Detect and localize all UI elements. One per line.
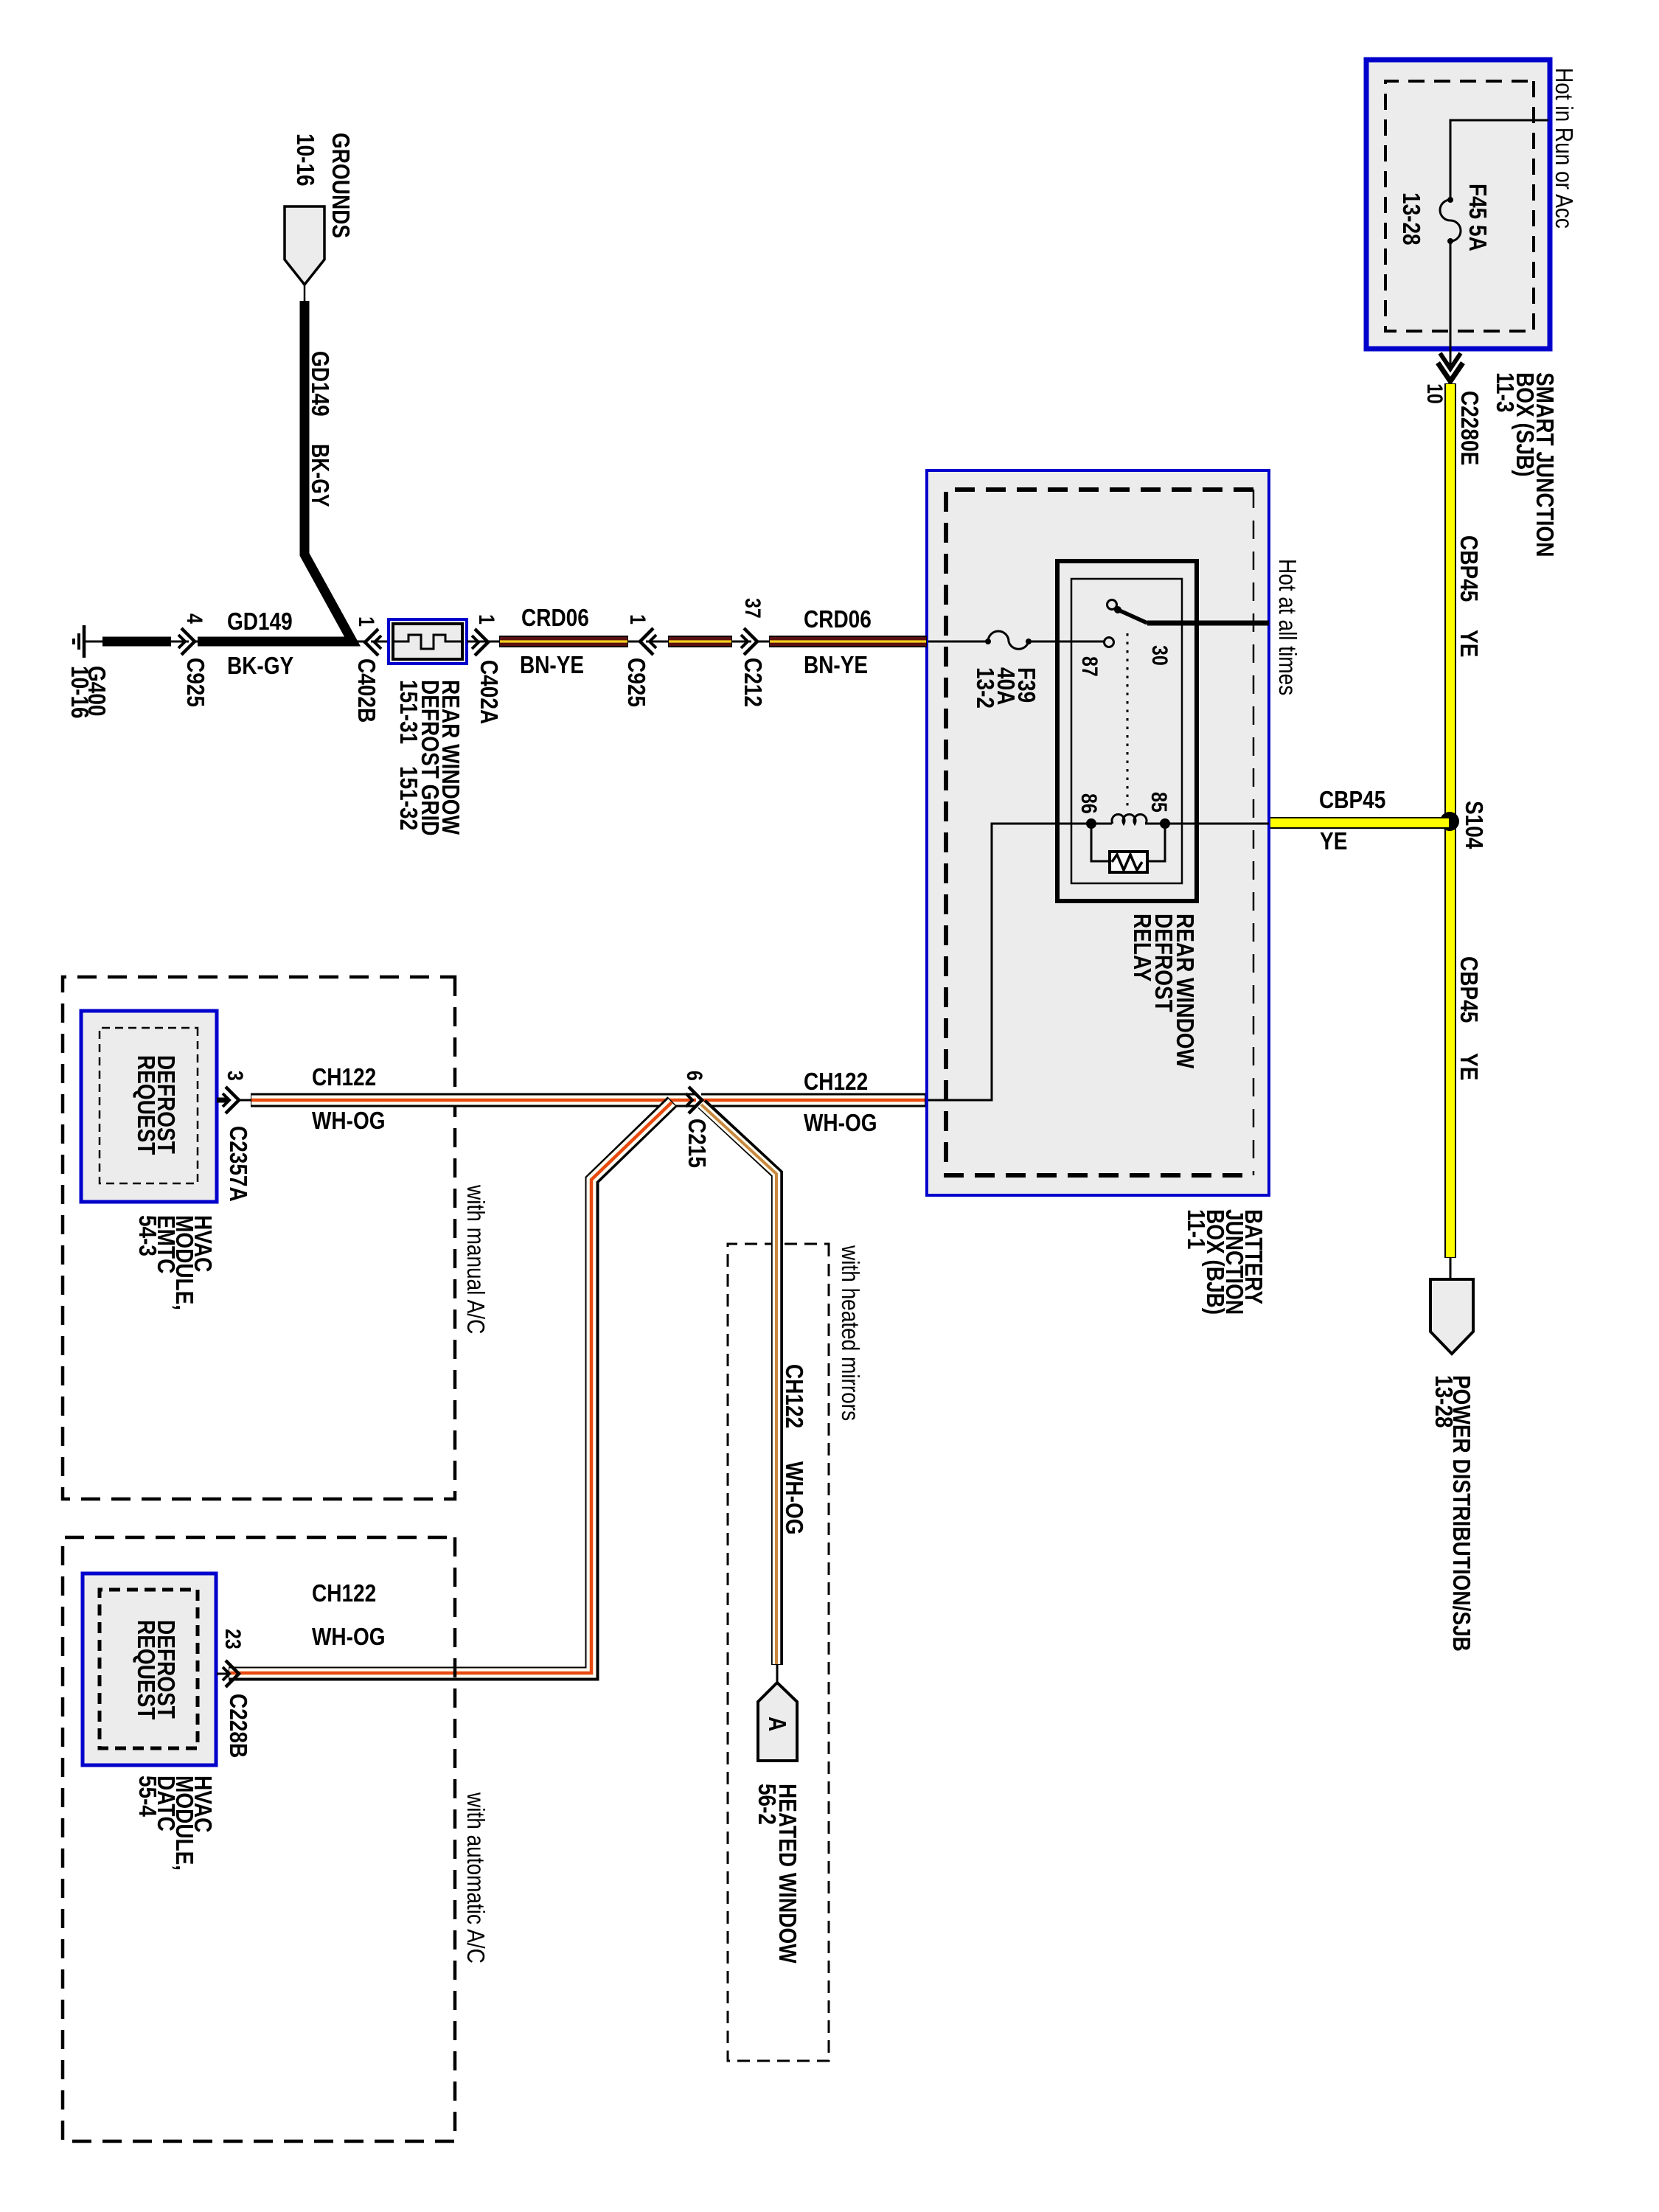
BJB inner dashed border (946, 490, 1253, 1175)
svg-text:REQUEST: REQUEST (133, 1620, 160, 1719)
svg-text:GD149: GD149 (307, 351, 334, 417)
wire CBP45 YE segment 1 (1444, 383, 1456, 1258)
wire fuse to SJB edge (1450, 241, 1452, 367)
wire pentagon to GD149 (304, 285, 306, 302)
fuse F39 40A (985, 631, 1032, 649)
HVAC module EMTC box (81, 1011, 217, 1202)
label F39 40A 13-2 (972, 667, 1040, 709)
connector C212 chevron (pin 37) (741, 628, 757, 655)
fuse F45 5A (1440, 197, 1461, 244)
svg-text:GROUNDS: GROUNDS (327, 133, 355, 238)
svg-text:C925: C925 (623, 658, 650, 707)
wire CBP45 YE branch to BJB (1269, 817, 1450, 829)
svg-text:CH122: CH122 (312, 1063, 376, 1091)
svg-text:13-28: 13-28 (1430, 1375, 1458, 1428)
splice S104 (1440, 812, 1459, 831)
DATC defrost request dashed box (100, 1590, 198, 1748)
svg-text:with manual A/C: with manual A/C (462, 1184, 490, 1334)
wire CRD06 BN-YE segment 3 (769, 636, 927, 647)
svg-text:WH-OG: WH-OG (781, 1461, 808, 1535)
svg-text:REQUEST: REQUEST (133, 1055, 160, 1155)
svg-text:C2280E: C2280E (1456, 391, 1484, 465)
svg-text:CRD06: CRD06 (521, 604, 589, 631)
svg-text:23: 23 (220, 1629, 245, 1649)
svg-text:56-2: 56-2 (754, 1784, 781, 1825)
svg-text:6: 6 (682, 1071, 706, 1081)
svg-text:54-3: 54-3 (134, 1215, 161, 1256)
svg-text:BN-YE: BN-YE (520, 651, 584, 678)
connector C925 chevron (pin 4) (178, 628, 195, 655)
svg-text:1: 1 (474, 614, 498, 625)
connector C925 chevron (pin 1) (640, 628, 656, 655)
connector C228B chevron (pin 23) (223, 1660, 239, 1687)
svg-text:YE: YE (1455, 1053, 1483, 1080)
svg-text:WH-OG: WH-OG (312, 1107, 386, 1134)
svg-text:with automatic A/C: with automatic A/C (462, 1792, 490, 1964)
relay inner box (1071, 579, 1182, 883)
svg-text:1: 1 (354, 616, 378, 627)
svg-text:11-1: 11-1 (1183, 1209, 1210, 1250)
rear window defrost grid box (389, 619, 467, 664)
GROUNDS pentagon connector (285, 206, 324, 285)
svg-text:CH122: CH122 (781, 1364, 808, 1428)
svg-text:C402B: C402B (353, 658, 380, 723)
svg-text:BK-GY: BK-GY (227, 652, 293, 679)
svg-text:30: 30 (1147, 645, 1172, 666)
svg-text:C215: C215 (684, 1119, 711, 1168)
svg-text:CBP45: CBP45 (1455, 956, 1483, 1023)
svg-text:CRD06: CRD06 (804, 605, 872, 633)
wire CRD06 BN-YE segment 1 (499, 636, 628, 647)
svg-text:YE: YE (1455, 630, 1483, 657)
EMTC pin stub (217, 1098, 229, 1103)
relay switch arm (1107, 600, 1148, 624)
wire CRD06 BN-YE mid segment (668, 636, 732, 647)
relay suppression resistor (1091, 824, 1165, 872)
wire CH122 WH-OG heated window branch (701, 1104, 777, 1665)
svg-text:S104: S104 (1461, 801, 1488, 849)
svg-text:1: 1 (625, 614, 650, 625)
smart junction box SJB (1366, 60, 1550, 349)
wire at C212 gap (732, 641, 769, 643)
svg-text:WH-OG: WH-OG (312, 1623, 386, 1650)
wire GD149 BK-GY thick lower (102, 637, 171, 647)
relay outer box (1057, 561, 1197, 901)
svg-text:3: 3 (223, 1071, 247, 1081)
svg-text:86: 86 (1077, 793, 1101, 814)
svg-text:Hot in Run or Acc: Hot in Run or Acc (1551, 68, 1578, 229)
svg-text:CBP45: CBP45 (1319, 786, 1385, 813)
svg-text:151-31: 151-31 (395, 680, 422, 744)
svg-text:GD149: GD149 (227, 608, 293, 635)
svg-text:BN-YE: BN-YE (804, 651, 868, 678)
wire fuse F39 to pin 87 (1029, 641, 1104, 643)
svg-text:10: 10 (1422, 383, 1447, 404)
svg-text:CH122: CH122 (312, 1579, 376, 1607)
relay coil (1086, 814, 1170, 829)
svg-text:11-3: 11-3 (1492, 372, 1519, 413)
battery junction box BJB (927, 470, 1269, 1195)
svg-text:F45 5A: F45 5A (1464, 184, 1492, 251)
DATC pin stub (217, 1673, 229, 1675)
A pentagon connector (758, 1683, 797, 1761)
svg-text:C925: C925 (182, 658, 209, 707)
SJB inner dashed border (1385, 81, 1534, 331)
wire GD149 BK-GY thick upper (198, 301, 352, 641)
svg-text:CH122: CH122 (804, 1068, 868, 1095)
svg-text:CBP45: CBP45 (1455, 535, 1483, 602)
label HVAC MODULE, EMTC 54-3 (134, 1215, 217, 1310)
wire to ground G400 (86, 641, 105, 643)
wire coil pin 86 to CH122 (928, 824, 1091, 1100)
wire to POWER DISTRIBUTION pentagon (1450, 1258, 1452, 1281)
svg-text:Hot at all times: Hot at all times (1274, 559, 1301, 695)
EMTC defrost request dashed box (100, 1028, 198, 1183)
arrow out of SJB (1438, 353, 1463, 381)
svg-text:10-16: 10-16 (66, 666, 94, 719)
hot feed wire into relay pin 30 (1147, 621, 1269, 626)
wire CH122 WH-OG main (251, 1093, 925, 1107)
wire from SJB top to fuse F45 (1450, 120, 1548, 198)
svg-text:55-4: 55-4 (134, 1775, 161, 1818)
label REAR WINDOW DEFROST RELAY (1129, 914, 1199, 1069)
relay actuator dotted line (1127, 633, 1129, 809)
svg-text:RELAY: RELAY (1129, 914, 1156, 981)
wire BJB edge to fuse F39 (928, 641, 988, 643)
wire to A pentagon (776, 1665, 779, 1684)
svg-text:87: 87 (1077, 656, 1102, 677)
svg-text:37: 37 (740, 598, 765, 619)
wire yellow branch into coil pin 85 (1165, 823, 1269, 825)
label BATTERY JUNCTION BOX (BJB) 11-1 (1183, 1209, 1267, 1315)
svg-text:BK-GY: BK-GY (307, 444, 334, 507)
label HEATED WINDOW 56-2 (754, 1784, 801, 1964)
wire CH122 WH-OG to DATC (229, 1102, 672, 1674)
svg-text:10-16: 10-16 (292, 133, 319, 187)
svg-text:13-28: 13-28 (1398, 192, 1425, 246)
svg-text:13-2: 13-2 (972, 667, 999, 709)
svg-text:YE: YE (1320, 827, 1347, 855)
svg-text:C402A: C402A (476, 660, 503, 724)
label HVAC MODULE, DATC 55-4 (134, 1775, 217, 1871)
svg-text:C2357A: C2357A (225, 1126, 252, 1202)
wire chevron to CH122 (239, 1099, 251, 1102)
svg-text:WH-OG: WH-OG (804, 1109, 877, 1136)
ground symbol G400 (74, 625, 84, 658)
svg-text:C228B: C228B (225, 1694, 252, 1758)
svg-text:with heated mirrors: with heated mirrors (837, 1245, 864, 1421)
wire at C925 (pin1) gap (628, 641, 668, 643)
relay pin 87 contact (1105, 638, 1114, 647)
svg-text:4: 4 (182, 613, 206, 624)
svg-text:151-32: 151-32 (395, 766, 422, 830)
svg-text:A: A (764, 1717, 791, 1731)
connector C402B chevron (pin 1) (365, 629, 381, 655)
HVAC module DATC box (83, 1573, 216, 1765)
junction gap at C215 (696, 1093, 701, 1107)
with heated mirrors dashed box (728, 1244, 829, 2061)
with automatic A/C dashed box (63, 1537, 455, 2141)
svg-text:85: 85 (1147, 792, 1171, 813)
wire at connector C925 gap (168, 641, 201, 643)
label DEFROST REQUEST (DATC) (133, 1620, 180, 1719)
grid element symbol (393, 635, 462, 649)
label DEFROST REQUEST (EMTC) (133, 1055, 180, 1155)
POWER DISTRIBUTION pentagon connector (1430, 1279, 1473, 1354)
wire C402B to grid (195, 641, 389, 643)
label SMART JUNCTION BOX (SJB) 11-3 (1492, 372, 1559, 557)
svg-text:C212: C212 (740, 658, 767, 707)
wire grid to C402A (467, 641, 499, 643)
label REAR WINDOW DEFROST GRID 151-31 151-32 (395, 680, 465, 836)
connector C2357A chevron (pin 3) (223, 1087, 239, 1113)
connector C215 chevron (pin 6) (686, 1087, 702, 1113)
connector C402A chevron (pin 1) (472, 629, 488, 655)
with manual A/C dashed box (63, 977, 455, 1499)
